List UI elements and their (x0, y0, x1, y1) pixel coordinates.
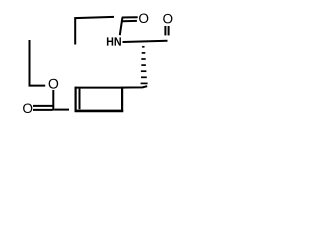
wire: ester C=O double bond bottom line (33, 109, 53, 111)
wire: ring to wedge-carbon bond (extension) (122, 86, 147, 87)
wire: carbonyl C to ring bond (54, 109, 69, 111)
wire: propanoyl ethyl C-C bond (vertical) (75, 17, 114, 45)
node O (amide carbonyl oxygen) (139, 13, 148, 23)
wire: amide C=O double bond top line (122, 16, 138, 18)
wire: N-CH-CHO backbone (horizontal) (123, 41, 168, 42)
wire: hashed wedge bond (stereo, 7 dashes) (141, 47, 148, 84)
wire: ester ethyl C-C bond (vertical) + O-CH2 bond (30, 40, 46, 86)
wire: ester C=O double bond top line (33, 105, 53, 107)
wire: cyclobutene ring rectangle (76, 87, 123, 89)
node HN (amide nitrogen) (107, 37, 121, 45)
node O (ester oxygen) (49, 79, 59, 89)
node O (ester carbonyl oxygen) (23, 103, 32, 113)
wire: amide C=O double bond bottom line (122, 20, 137, 22)
wire: amide C-N bond (vertical, slight lean) (120, 18, 123, 36)
wire: ester O-C(=O) bond (vertical) (52, 90, 54, 111)
wire: aldehyde C=O double bond left line (164, 26, 166, 35)
wire: ring C=C inner double bond line (79, 89, 81, 110)
wire: aldehyde C=O double bond right line (168, 26, 170, 35)
node O (aldehyde oxygen) (163, 14, 172, 24)
